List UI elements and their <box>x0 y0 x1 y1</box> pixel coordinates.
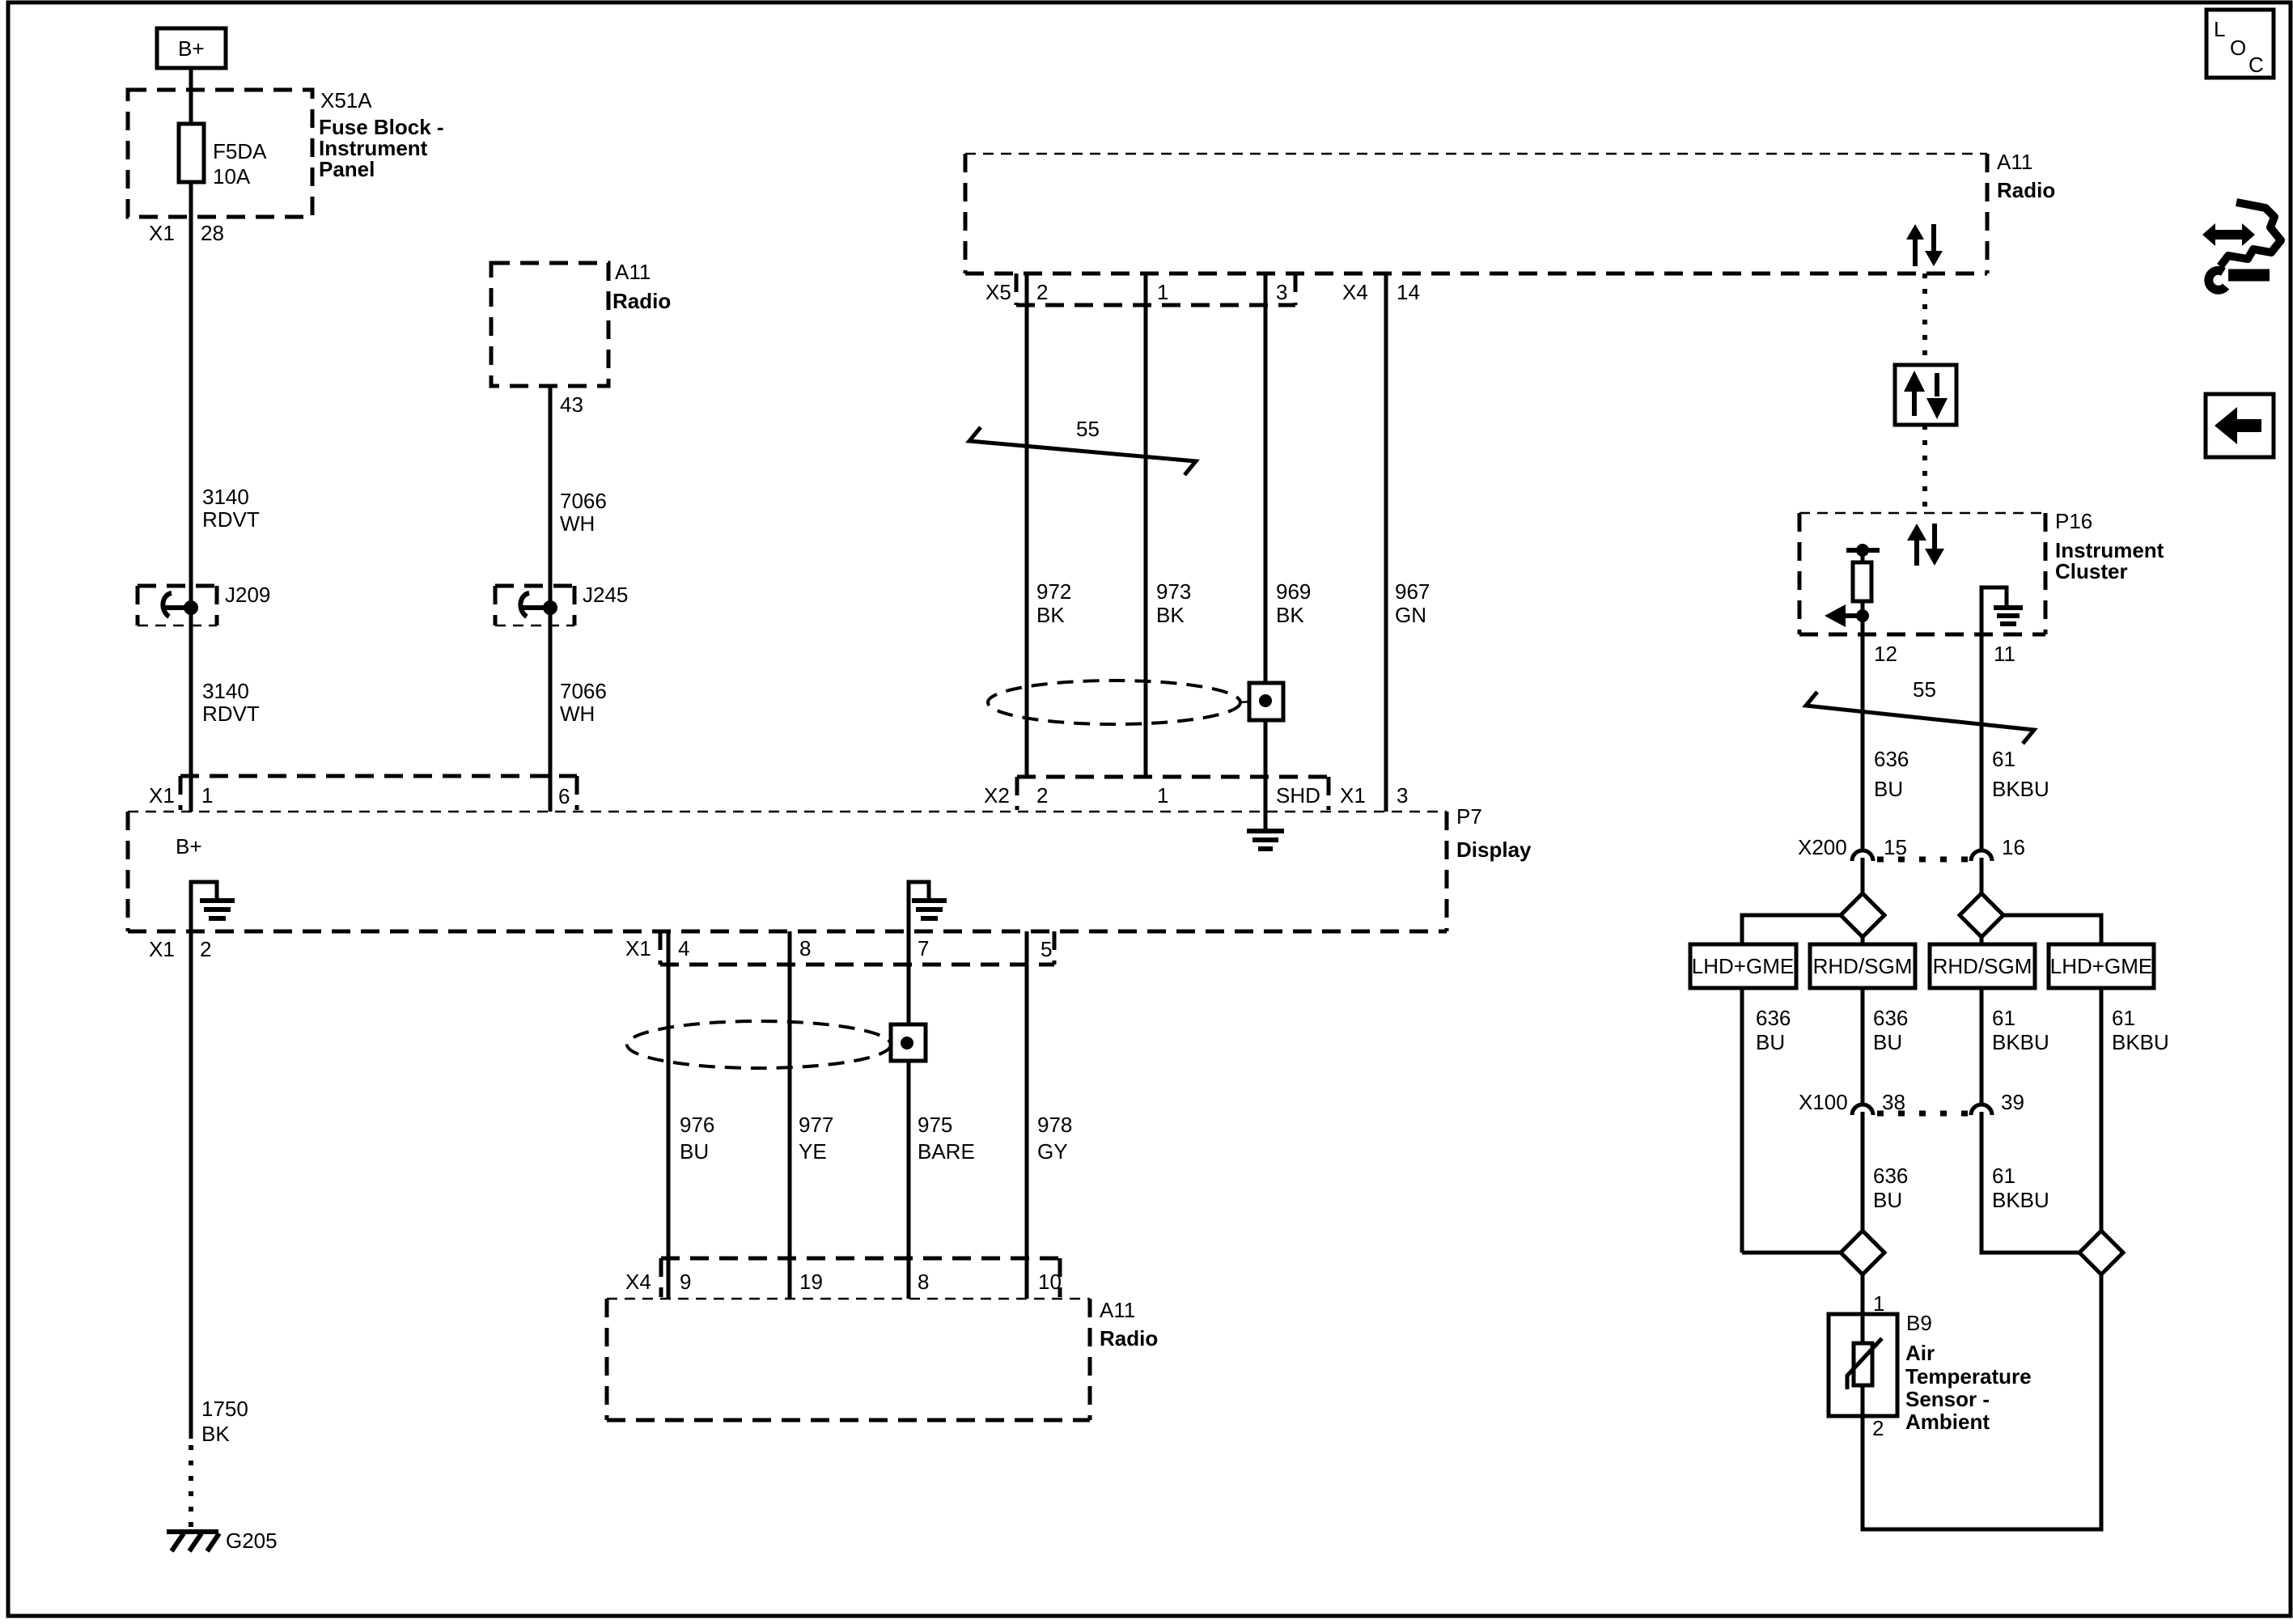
svg-text:636: 636 <box>1756 1006 1791 1030</box>
wire label 61 BKBU <box>1992 747 2049 801</box>
dotted wire to G205 <box>189 1445 193 1534</box>
svg-text:4: 4 <box>678 936 689 960</box>
svg-text:978: 978 <box>1037 1113 1072 1137</box>
svg-text:2: 2 <box>200 937 211 961</box>
svg-text:8: 8 <box>799 936 811 960</box>
svg-text:BK: BK <box>1156 603 1185 627</box>
svg-text:636: 636 <box>1873 1164 1908 1188</box>
pin X1 28 of fuse block <box>149 221 224 245</box>
svg-text:LHD+GME: LHD+GME <box>2050 954 2152 978</box>
svg-text:7: 7 <box>918 936 929 960</box>
wire label 976 BU <box>680 1113 714 1164</box>
dotted connector tie line X100 <box>1877 1111 1968 1117</box>
svg-text:61: 61 <box>2112 1006 2135 1030</box>
svg-text:3140: 3140 <box>202 485 249 509</box>
svg-text:X1: X1 <box>149 937 175 961</box>
svg-text:WH: WH <box>560 702 595 726</box>
wire label 636 BU <box>1874 747 1909 801</box>
svg-text:967: 967 <box>1395 579 1430 604</box>
wire label 1750 BK <box>201 1397 248 1446</box>
svg-text:636: 636 <box>1873 1006 1908 1030</box>
harness routing icon (top right) <box>2202 202 2281 290</box>
wire 969 BK <box>1264 273 1268 829</box>
label X51A Fuse Block - Instrument Panel <box>319 88 444 181</box>
svg-text:X4: X4 <box>1342 280 1368 304</box>
svg-text:P7: P7 <box>1456 804 1482 829</box>
svg-text:973: 973 <box>1156 579 1191 604</box>
option splice diamond (left) <box>1841 893 1884 937</box>
wire label 973 BK <box>1156 579 1191 627</box>
svg-text:10A: 10A <box>213 164 251 189</box>
label B9 Air Temperature Sensor - Ambient <box>1905 1311 2032 1434</box>
svg-text:Sensor -: Sensor - <box>1905 1387 1990 1411</box>
radio A11 dashed box (bottom) <box>607 1298 1158 1420</box>
branch join wire to lower-left diamond <box>1742 1251 1841 1255</box>
option box RHD/SGM (3) <box>1930 944 2035 988</box>
svg-text:J209: J209 <box>225 583 270 607</box>
svg-text:Display: Display <box>1456 837 1532 862</box>
wire from X200-16 to option splice <box>1980 858 1984 895</box>
wire label 61 BKBU (lower) <box>1992 1164 2049 1212</box>
svg-text:55: 55 <box>1076 417 1100 441</box>
svg-text:YE: YE <box>799 1139 827 1164</box>
branch wires to option boxes <box>1742 915 2101 944</box>
wire to sensor pin 1 <box>1861 1274 1865 1314</box>
svg-text:J245: J245 <box>583 583 628 607</box>
svg-text:19: 19 <box>799 1270 823 1294</box>
svg-text:A11: A11 <box>1997 150 2032 174</box>
svg-text:61: 61 <box>1992 1006 2015 1030</box>
svg-text:BU: BU <box>1874 777 1903 801</box>
svg-text:RHD/SGM: RHD/SGM <box>1813 954 1913 978</box>
wire 973 BK <box>1144 273 1148 776</box>
svg-text:X100: X100 <box>1799 1090 1848 1114</box>
svg-text:Radio: Radio <box>1100 1326 1158 1351</box>
svg-text:7066: 7066 <box>560 679 607 703</box>
wire label 967 GN <box>1395 579 1430 627</box>
svg-text:2: 2 <box>1036 280 1048 304</box>
svg-text:977: 977 <box>799 1113 833 1137</box>
svg-text:3: 3 <box>1397 783 1408 808</box>
back arrow icon box (right) <box>2206 394 2274 457</box>
twisted pair marker 55 (top) <box>969 417 1196 475</box>
wire label 3140 RDVT upper <box>202 485 260 532</box>
svg-text:P16: P16 <box>2055 509 2092 533</box>
svg-text:61: 61 <box>1992 747 2015 771</box>
svg-text:15: 15 <box>1884 835 1907 859</box>
shield ellipse around 976/977 <box>627 1021 926 1068</box>
svg-text:3140: 3140 <box>202 679 249 703</box>
svg-text:X1: X1 <box>149 783 175 808</box>
svg-text:2: 2 <box>1872 1416 1884 1440</box>
svg-text:61: 61 <box>1992 1164 2015 1188</box>
wire P16 pin 11 down <box>1980 634 1984 850</box>
wire label 636 BU (branch 1) <box>1756 1006 1791 1054</box>
svg-text:BARE: BARE <box>918 1139 975 1164</box>
instrument cluster P16 dashed box <box>1799 509 2164 634</box>
svg-text:Temperature: Temperature <box>1905 1364 2032 1389</box>
svg-text:Panel: Panel <box>319 157 375 181</box>
svg-text:RDVT: RDVT <box>202 702 260 726</box>
option box RHD/SGM (2) <box>1810 944 1915 988</box>
svg-text:2: 2 <box>1036 783 1048 808</box>
wire 978 GY <box>1025 931 1029 1299</box>
svg-text:A11: A11 <box>1100 1298 1135 1322</box>
svg-text:7066: 7066 <box>560 489 607 513</box>
connector X2 bracket (display top, pins 2 1 SHD) <box>984 777 1408 810</box>
in-line connector X100 pin 39 <box>1971 1090 2024 1115</box>
svg-text:G205: G205 <box>226 1529 278 1553</box>
option splice diamond (lower right) <box>2079 1231 2123 1274</box>
pin X1 2 of display (bottom left) <box>149 937 211 961</box>
svg-text:C: C <box>2248 53 2264 77</box>
svg-text:BKBU: BKBU <box>1992 1188 2049 1212</box>
wire 975 BARE <box>907 931 911 1299</box>
display P7 dashed box <box>128 804 1532 931</box>
wire label 7066 WH lower <box>560 679 607 726</box>
svg-text:Radio: Radio <box>612 289 671 313</box>
svg-text:B+: B+ <box>176 834 202 859</box>
svg-text:8: 8 <box>918 1270 929 1294</box>
svg-text:BKBU: BKBU <box>2112 1030 2169 1054</box>
svg-text:X4: X4 <box>625 1270 651 1294</box>
wire label 969 BK <box>1276 579 1311 627</box>
svg-text:X2: X2 <box>984 783 1010 808</box>
wire 976 BU <box>667 931 671 1299</box>
wires below option boxes <box>1742 988 2101 1253</box>
wire 967 GN <box>1384 273 1388 812</box>
svg-text:BK: BK <box>201 1422 230 1446</box>
svg-text:BKBU: BKBU <box>1992 777 2049 801</box>
svg-text:F5DA: F5DA <box>213 139 267 163</box>
svg-text:L: L <box>2214 17 2225 41</box>
svg-text:X51A: X51A <box>320 88 372 112</box>
svg-text:X5: X5 <box>985 280 1011 304</box>
connector X1 bracket (display bottom, pins 4 8 7 5) <box>625 931 1054 965</box>
wire label 61 BKBU (branch 4) <box>2112 1006 2169 1054</box>
svg-text:10: 10 <box>1038 1270 1062 1294</box>
ground symbol inside display (right, pin 7) <box>909 882 947 931</box>
wire X100-39 down then right <box>1981 1112 2079 1253</box>
svg-text:Cluster: Cluster <box>2055 559 2128 583</box>
svg-text:1: 1 <box>1157 783 1168 808</box>
svg-text:1: 1 <box>1157 280 1168 304</box>
svg-text:28: 28 <box>201 221 224 245</box>
ground symbol for SHD inside display <box>1247 831 1284 849</box>
radio A11 small dashed box <box>491 260 671 386</box>
svg-text:RDVT: RDVT <box>202 507 260 532</box>
LOC reference box <box>2206 10 2274 78</box>
wire label 972 BK <box>1036 579 1071 627</box>
ground G205 chassis symbol <box>167 1529 278 1553</box>
option splice diamond (right) <box>1960 893 2003 937</box>
svg-text:Ambient: Ambient <box>1905 1410 1990 1434</box>
svg-text:975: 975 <box>918 1113 952 1137</box>
svg-text:LHD+GME: LHD+GME <box>1692 954 1794 978</box>
wire P16 pin 12 down <box>1861 634 1865 850</box>
wire B+ feed to fuse <box>189 68 193 812</box>
in-line connector X100 pin 38 <box>1799 1090 1905 1115</box>
svg-text:Air: Air <box>1905 1341 1935 1365</box>
twisted pair marker 55 (right) <box>1806 677 2034 744</box>
svg-text:3: 3 <box>1276 280 1287 304</box>
svg-text:972: 972 <box>1036 579 1071 604</box>
wire sensor pin 2 to lower right branch <box>1863 1274 2101 1529</box>
dotted wire to instrument cluster <box>1922 425 1927 513</box>
svg-text:Radio: Radio <box>1997 178 2055 202</box>
svg-text:GN: GN <box>1395 603 1426 627</box>
svg-text:GY: GY <box>1037 1139 1068 1164</box>
svg-text:636: 636 <box>1874 747 1909 771</box>
svg-text:976: 976 <box>680 1113 714 1137</box>
svg-text:BU: BU <box>1873 1030 1902 1054</box>
wire label 975 BARE <box>918 1113 975 1164</box>
svg-text:SHD: SHD <box>1276 783 1320 808</box>
resistor element inside P16 <box>1825 544 1880 634</box>
wire 1750 BK from display to ground <box>189 931 193 1439</box>
splice J209 <box>138 583 270 625</box>
connector X1 (top of display, pins 1 and 6) <box>149 776 577 810</box>
svg-text:BU: BU <box>680 1139 709 1164</box>
svg-text:WH: WH <box>560 511 595 536</box>
svg-text:6: 6 <box>558 784 570 808</box>
wire label 636 BU (lower) <box>1873 1164 1908 1212</box>
svg-text:X1: X1 <box>149 221 175 245</box>
fuse F5DA 10A <box>179 124 267 189</box>
wire 972 BK <box>1025 273 1029 776</box>
svg-text:X1: X1 <box>1340 783 1366 808</box>
svg-text:RHD/SGM: RHD/SGM <box>1933 954 2032 978</box>
wire label 977 YE <box>799 1113 833 1164</box>
wire X100-38 down <box>1861 1112 1865 1231</box>
svg-text:11: 11 <box>1994 642 2015 666</box>
splice J245 <box>495 583 628 625</box>
svg-text:43: 43 <box>560 392 583 417</box>
svg-text:BU: BU <box>1756 1030 1785 1054</box>
ground symbol inside P16 (pin 11) <box>1981 587 2023 634</box>
node B+ battery box <box>157 28 226 68</box>
serial data arrows inside P16 <box>1907 524 1944 566</box>
shield ellipse around 972/973 <box>988 681 1283 724</box>
svg-text:5: 5 <box>1041 937 1052 961</box>
serial data arrows inside radio box <box>1906 224 1943 266</box>
wire label 636 BU (branch 2) <box>1873 1006 1908 1054</box>
data link connector symbol (boxed arrows) <box>1895 365 1956 425</box>
wire 977 YE <box>788 931 792 1299</box>
in-line connector X200 pin 15 <box>1798 835 1907 861</box>
svg-text:1750: 1750 <box>201 1397 248 1421</box>
wire label 3140 RDVT lower <box>202 679 260 726</box>
wire label 7066 WH upper <box>560 489 607 536</box>
svg-text:16: 16 <box>2002 835 2025 859</box>
wire label 61 BKBU (branch 3) <box>1992 1006 2049 1054</box>
svg-text:9: 9 <box>680 1270 691 1294</box>
svg-text:55: 55 <box>1913 677 1936 702</box>
svg-text:A11: A11 <box>615 260 651 284</box>
svg-text:BK: BK <box>1276 603 1304 627</box>
radio A11 large dashed box (top) <box>965 150 2055 273</box>
option box LHD+GME (1) <box>1690 944 1796 988</box>
svg-text:B+: B+ <box>178 36 205 61</box>
option splice diamond (lower left) <box>1841 1231 1884 1274</box>
wire radio pin 43 down to display <box>549 386 553 812</box>
ground symbol inside display (left) <box>191 882 235 931</box>
svg-text:O: O <box>2230 36 2246 60</box>
connector X4 bracket (radio bottom box, pins 9 19 8 10) <box>625 1258 1062 1297</box>
in-line connector X200 pin 16 <box>1971 835 2025 861</box>
option box LHD+GME (4) <box>2049 944 2154 988</box>
connector X5 bracket (radio bottom, pins 2 1 3) <box>985 273 1420 305</box>
svg-text:39: 39 <box>2001 1090 2024 1114</box>
svg-text:1: 1 <box>201 783 213 808</box>
svg-text:14: 14 <box>1397 280 1420 304</box>
svg-text:969: 969 <box>1276 579 1311 604</box>
serial data link dotted wire radio to P16 <box>1922 273 1927 363</box>
wire label 978 GY <box>1037 1113 1072 1164</box>
svg-text:X200: X200 <box>1798 835 1847 859</box>
dotted connector tie line X200 <box>1877 857 1968 863</box>
air temperature sensor B9 box <box>1829 1314 1897 1416</box>
svg-text:BK: BK <box>1036 603 1065 627</box>
svg-text:BKBU: BKBU <box>1992 1030 2049 1054</box>
svg-text:BU: BU <box>1873 1188 1902 1212</box>
svg-text:X1: X1 <box>625 936 651 960</box>
svg-text:B9: B9 <box>1906 1311 1932 1335</box>
wire from X200-15 to option splice <box>1861 858 1865 895</box>
fuse block X51A dashed box <box>128 90 312 217</box>
svg-text:12: 12 <box>1874 642 1897 666</box>
